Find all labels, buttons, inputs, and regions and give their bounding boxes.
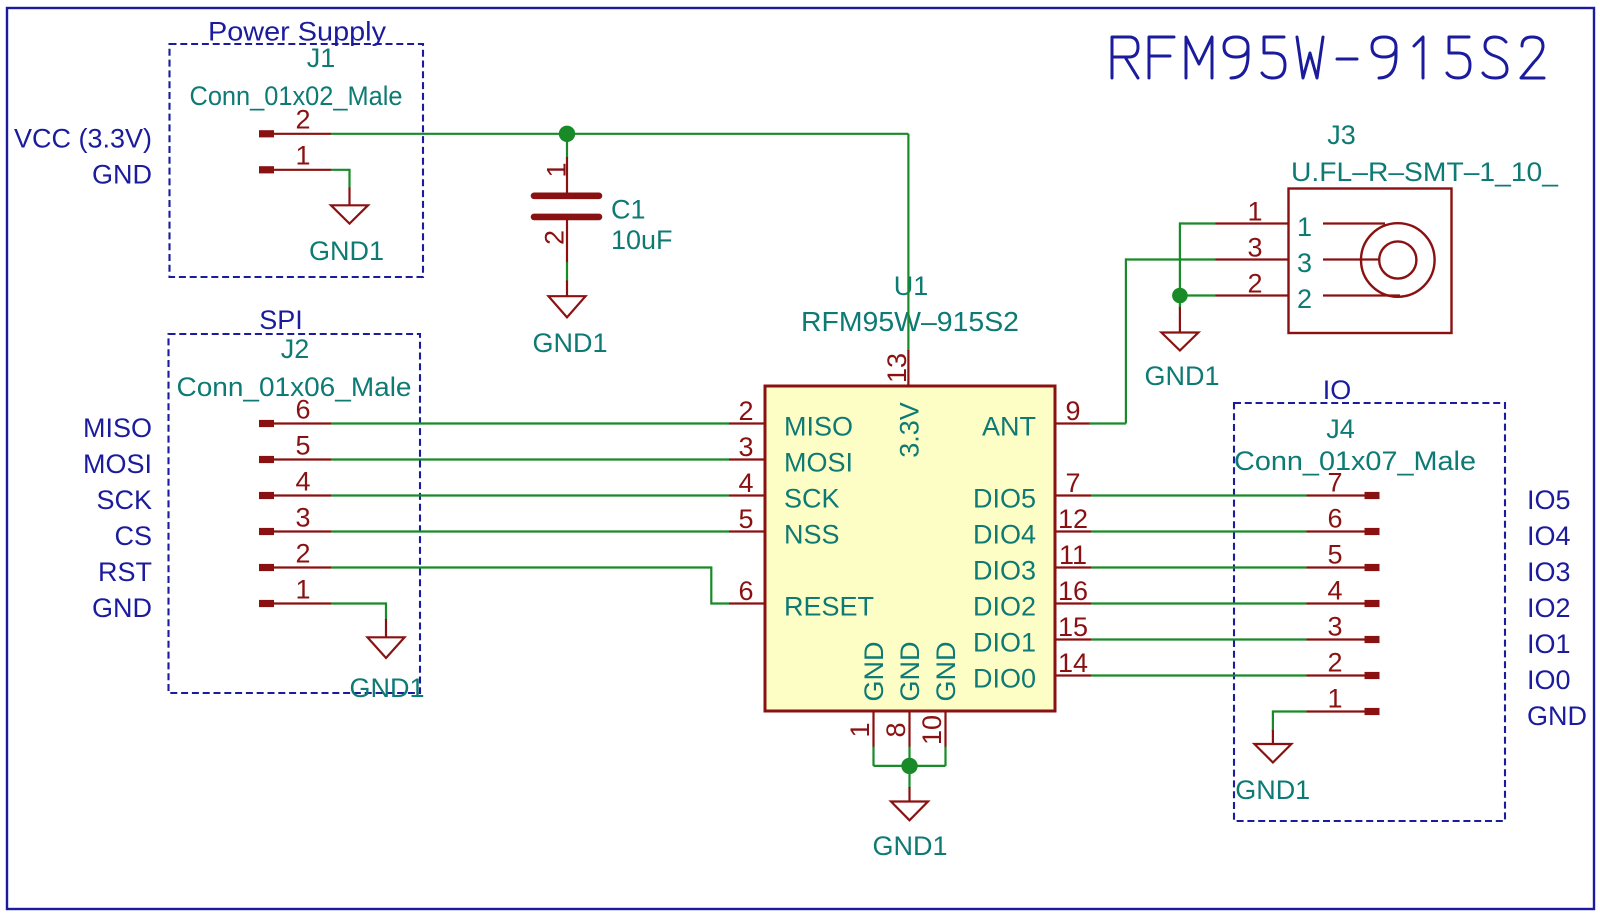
svg-text:GND1: GND1: [532, 328, 607, 358]
svg-text:GND1: GND1: [309, 236, 384, 266]
svg-text:U.FL–R–SMT–1_10_: U.FL–R–SMT–1_10_: [1291, 157, 1559, 187]
svg-text:GND1: GND1: [1144, 361, 1219, 391]
svg-text:SCK: SCK: [96, 485, 152, 515]
svg-text:SCK: SCK: [784, 484, 840, 514]
svg-text:2: 2: [738, 396, 753, 426]
svg-text:1: 1: [542, 162, 572, 177]
svg-text:IO3: IO3: [1527, 557, 1571, 587]
svg-text:IO4: IO4: [1527, 521, 1571, 551]
svg-text:2: 2: [540, 230, 570, 245]
svg-text:4: 4: [738, 468, 753, 498]
svg-text:13: 13: [882, 353, 912, 383]
svg-text:IO0: IO0: [1527, 665, 1571, 695]
svg-text:DIO2: DIO2: [973, 592, 1036, 622]
svg-text:GND: GND: [859, 642, 889, 702]
svg-text:7: 7: [1065, 468, 1080, 498]
svg-text:2: 2: [295, 104, 310, 134]
svg-text:NSS: NSS: [784, 520, 840, 550]
svg-text:GND: GND: [895, 642, 925, 702]
svg-text:IO1: IO1: [1527, 629, 1571, 659]
svg-text:3: 3: [738, 432, 753, 462]
svg-text:RESET: RESET: [784, 592, 874, 622]
svg-text:4: 4: [295, 466, 310, 496]
svg-text:VCC (3.3V): VCC (3.3V): [14, 123, 152, 153]
svg-text:IO: IO: [1323, 375, 1352, 405]
svg-text:15: 15: [1058, 612, 1088, 642]
svg-text:MISO: MISO: [784, 412, 853, 442]
svg-text:GND: GND: [92, 159, 152, 189]
svg-text:5: 5: [1327, 539, 1342, 569]
svg-text:1: 1: [1327, 683, 1342, 713]
svg-text:SPI: SPI: [259, 305, 303, 335]
svg-text:5: 5: [295, 430, 310, 460]
svg-text:IO5: IO5: [1527, 485, 1571, 515]
svg-text:12: 12: [1058, 504, 1088, 534]
svg-text:5: 5: [738, 504, 753, 534]
svg-text:1: 1: [295, 140, 310, 170]
svg-text:CS: CS: [114, 521, 152, 551]
svg-text:DIO3: DIO3: [973, 556, 1036, 586]
svg-text:1: 1: [845, 722, 875, 737]
svg-text:DIO4: DIO4: [973, 520, 1036, 550]
svg-text:3.3V: 3.3V: [894, 402, 924, 458]
svg-text:GND1: GND1: [872, 831, 947, 861]
svg-text:GND: GND: [92, 593, 152, 623]
svg-text:2: 2: [1327, 647, 1342, 677]
svg-text:9: 9: [1065, 396, 1080, 426]
svg-text:U1: U1: [894, 271, 929, 301]
svg-text:6: 6: [1327, 503, 1342, 533]
svg-text:C1: C1: [611, 195, 646, 225]
svg-text:RST: RST: [98, 557, 152, 587]
svg-text:GND: GND: [931, 642, 961, 702]
svg-text:3: 3: [1327, 611, 1342, 641]
svg-text:J1: J1: [307, 43, 336, 73]
svg-text:J4: J4: [1326, 414, 1355, 444]
svg-text:8: 8: [881, 722, 911, 737]
svg-text:11: 11: [1059, 540, 1087, 570]
svg-text:4: 4: [1327, 575, 1342, 605]
svg-text:3: 3: [1247, 233, 1262, 263]
svg-text:RFM95W–915S2: RFM95W–915S2: [801, 306, 1019, 337]
svg-text:DIO1: DIO1: [973, 628, 1036, 658]
svg-text:J2: J2: [281, 334, 310, 364]
svg-text:Conn_01x06_Male: Conn_01x06_Male: [177, 372, 412, 402]
svg-text:2: 2: [1297, 284, 1312, 314]
svg-text:10: 10: [917, 715, 947, 745]
svg-text:16: 16: [1058, 576, 1088, 606]
svg-text:6: 6: [295, 394, 310, 424]
svg-text:DIO5: DIO5: [973, 484, 1036, 514]
svg-text:2: 2: [1247, 269, 1262, 299]
svg-text:6: 6: [738, 576, 753, 606]
svg-text:7: 7: [1327, 467, 1342, 497]
svg-text:IO2: IO2: [1527, 593, 1571, 623]
svg-text:J3: J3: [1327, 120, 1356, 150]
svg-text:MOSI: MOSI: [784, 448, 853, 478]
svg-text:Power Supply: Power Supply: [208, 16, 387, 46]
svg-text:GND1: GND1: [349, 673, 424, 703]
svg-text:GND1: GND1: [1235, 775, 1310, 805]
svg-text:10uF: 10uF: [611, 225, 673, 255]
svg-text:3: 3: [1297, 248, 1312, 278]
svg-text:1: 1: [1297, 212, 1312, 242]
svg-text:ANT: ANT: [982, 412, 1036, 442]
svg-text:1: 1: [295, 574, 310, 604]
svg-text:3: 3: [295, 502, 310, 532]
svg-text:GND: GND: [1527, 701, 1587, 731]
svg-text:2: 2: [295, 538, 310, 568]
svg-text:MOSI: MOSI: [83, 449, 152, 479]
svg-text:1: 1: [1247, 197, 1262, 227]
svg-text:MISO: MISO: [83, 413, 152, 443]
svg-text:14: 14: [1058, 648, 1088, 678]
svg-text:DIO0: DIO0: [973, 664, 1036, 694]
svg-text:Conn_01x07_Male: Conn_01x07_Male: [1234, 446, 1476, 476]
